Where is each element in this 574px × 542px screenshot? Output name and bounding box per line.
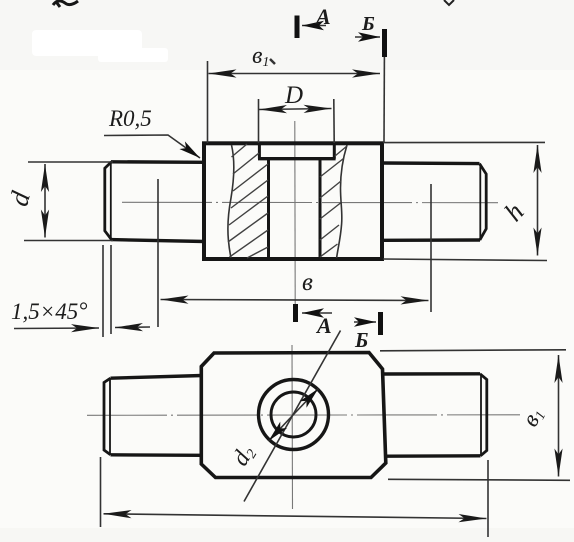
shaft right end face xyxy=(480,164,487,240)
R0,5 leader xyxy=(104,135,200,158)
counterbore right wall xyxy=(333,144,336,159)
shaft right top edge xyxy=(382,161,480,165)
section A-A top: arrow xyxy=(302,25,326,27)
section A-A top: tick xyxy=(295,16,300,39)
svg-text:A: A xyxy=(315,313,332,338)
hatch left xyxy=(228,144,268,258)
dim d left: line xyxy=(44,164,46,238)
L extensions xyxy=(100,457,102,527)
hatch right xyxy=(320,146,347,257)
1,5x45 extensions xyxy=(102,245,104,337)
plan shaft left top xyxy=(111,376,203,379)
shaft left chamfer line xyxy=(110,162,112,239)
dim b1 top: line xyxy=(209,73,381,75)
B-B section line down to block xyxy=(383,57,385,143)
dim h: extensions xyxy=(383,141,545,143)
dim h right: line xyxy=(537,145,539,256)
dim D: extensions xyxy=(258,99,260,143)
plan shaft right top xyxy=(384,372,480,376)
plan block octagon xyxy=(201,353,385,478)
dim b1 right: line xyxy=(558,355,560,477)
svg-text:R0,5: R0,5 xyxy=(108,106,152,131)
plan shaft right end xyxy=(480,374,487,456)
plan shaft left end xyxy=(104,378,111,455)
plan shaft right bottom xyxy=(386,454,481,458)
wavy break line right xyxy=(337,145,347,258)
plan shaft left chamfer line xyxy=(109,379,111,455)
center line vertical front (A-A axis) xyxy=(294,121,296,305)
dim b1 top: left extension xyxy=(207,61,209,143)
whiteout patch top-left xyxy=(32,30,168,62)
shaft right bottom edge xyxy=(382,238,480,242)
plan shaft right chamfer line xyxy=(480,374,482,455)
shaft left bottom edge xyxy=(111,240,205,242)
hole left wall xyxy=(267,159,270,259)
dim v (b) mid: line xyxy=(161,300,429,301)
d2 arrows xyxy=(294,389,319,415)
shaft right chamfer line xyxy=(479,164,481,240)
section B-B bottom: tick xyxy=(378,312,383,335)
svg-text:Б: Б xyxy=(361,13,375,35)
section A-A bottom: arrow xyxy=(302,312,332,314)
hole right wall xyxy=(319,159,322,259)
section B-B bottom: arrow xyxy=(354,321,376,323)
svg-text:в: в xyxy=(302,269,313,296)
dim L bottom: line xyxy=(104,514,487,519)
svg-text:D: D xyxy=(284,82,303,109)
dim 1,5x45: arrows xyxy=(14,327,99,330)
shaft left top edge xyxy=(111,160,205,164)
svg-text:1,5×45°: 1,5×45° xyxy=(11,298,87,324)
stray mark xyxy=(270,59,275,64)
dim v extensions xyxy=(157,179,159,327)
dim D: line xyxy=(259,109,332,110)
counterbore left wall xyxy=(258,144,261,159)
inner circle xyxy=(271,392,316,437)
block outline front xyxy=(204,143,382,259)
section A-A bottom: tick xyxy=(293,304,298,322)
cut-off mark top-middle xyxy=(444,0,454,5)
wavy break line left xyxy=(228,145,234,258)
d2 dim line diagonal xyxy=(244,331,341,502)
counterbore bottom ledge xyxy=(258,157,336,160)
center line horizontal front xyxy=(122,201,498,203)
outer circle xyxy=(259,380,329,450)
shaft left end face xyxy=(105,162,112,240)
center line vertical plan xyxy=(291,345,294,509)
center line horizontal plan xyxy=(87,414,520,417)
svg-text:A: A xyxy=(314,4,331,29)
svg-text:Б: Б xyxy=(354,328,368,352)
section B-B top: arrow xyxy=(355,36,380,38)
cut-off handwriting top-left xyxy=(53,1,78,7)
dim d: extensions xyxy=(28,161,113,163)
section B-B top: tick xyxy=(382,29,387,57)
plan shaft left bottom xyxy=(111,453,203,457)
b1 right extensions xyxy=(380,350,566,351)
